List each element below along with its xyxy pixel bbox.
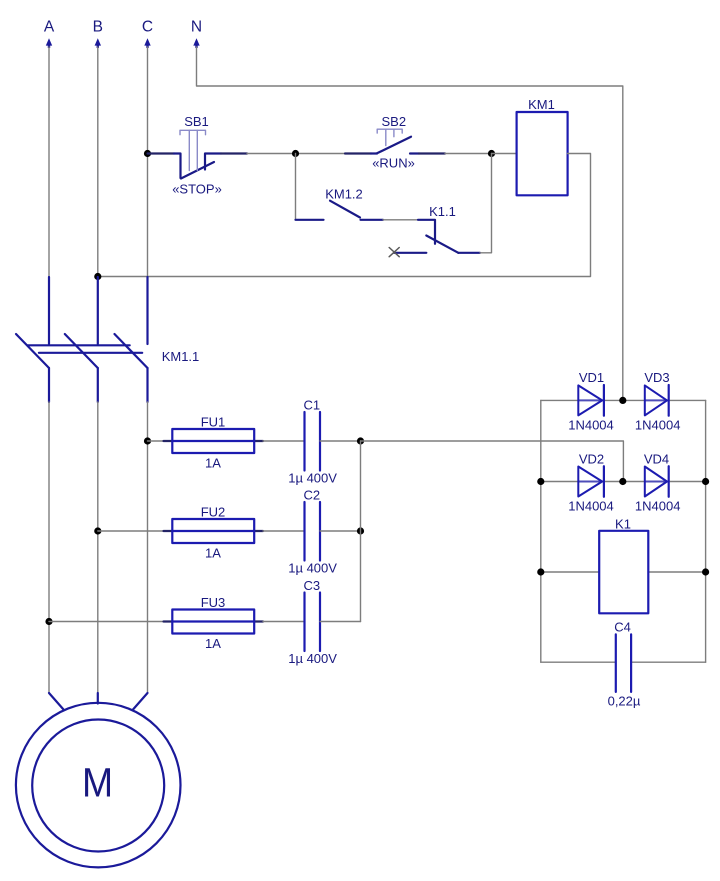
svg-text:VD2: VD2 (579, 451, 604, 466)
wire FU3 to C3 (263, 621, 305, 623)
diode VD4 (645, 467, 667, 497)
fuse FU2 (172, 530, 254, 532)
node junction branch (292, 150, 299, 157)
capacitor C2 (305, 502, 321, 561)
terminal arrow A (46, 38, 52, 48)
wire SB1 left pin overlap (148, 152, 175, 154)
svg-text:«STOP»: «STOP» (172, 181, 222, 196)
svg-text:1N4004: 1N4004 (568, 499, 614, 514)
node junction row2 right (702, 478, 709, 485)
svg-text:C3: C3 (303, 578, 320, 593)
svg-text:K1.1: K1.1 (429, 204, 456, 219)
fuse FU2 pins (164, 530, 173, 532)
fuse FU3 (172, 620, 254, 622)
fuse FU1 pins (164, 440, 173, 442)
pushbutton SB1 plunger (180, 130, 206, 134)
wire SB2 left pin overlap (345, 152, 371, 154)
svg-text:1A: 1A (205, 545, 221, 560)
capacitor C4 (616, 634, 631, 692)
motor M1 stub B (97, 693, 99, 704)
contactor contacts KM1.1 pins (48, 277, 50, 402)
wire C to FU1 (148, 440, 164, 442)
wire rectifier right rail (705, 400, 707, 662)
wire FU1 to C1 (263, 440, 305, 442)
wire phase B lower (97, 402, 99, 693)
svg-text:1µ 400V: 1µ 400V (288, 651, 337, 666)
svg-text:1A: 1A (205, 455, 221, 470)
wire branch down to KM1.2 (295, 154, 297, 220)
wire phase B vertical (97, 47, 99, 277)
svg-text:FU2: FU2 (201, 505, 226, 520)
svg-text:1N4004: 1N4004 (568, 417, 614, 432)
svg-text:1µ 400V: 1µ 400V (288, 471, 337, 486)
wire SB1 right pin overlap (221, 152, 247, 154)
wire phase C vertical (147, 47, 149, 277)
wire K1.1 up to KM1 node (480, 154, 492, 253)
svg-text:0,22µ: 0,22µ (608, 693, 641, 708)
wire phase A lower (48, 402, 50, 693)
wire cap bus vertical (360, 441, 362, 622)
svg-text:«RUN»: «RUN» (372, 156, 415, 171)
diode VD4 inner pin (645, 481, 667, 483)
svg-text:KM1: KM1 (528, 97, 555, 112)
svg-text:SB2: SB2 (382, 114, 407, 129)
svg-text:C: C (142, 18, 153, 35)
svg-text:1N4004: 1N4004 (635, 499, 681, 514)
wire phase C lower (147, 402, 149, 693)
node junction FU3 tap on A (45, 618, 52, 625)
contact K1.1 no-connect X (389, 248, 399, 257)
wire cap bus to rectifier (361, 441, 624, 482)
wire diode row2 (541, 481, 706, 483)
node junction row2 left (537, 478, 544, 485)
diode VD1 inner pin (578, 399, 602, 401)
svg-text:KM1.2: KM1.2 (325, 187, 363, 202)
motor M1 inner circle (32, 720, 164, 852)
wire C1 to bus (320, 440, 361, 442)
svg-text:N: N (191, 18, 202, 35)
diode VD1 (578, 385, 602, 415)
wire SB2 to KM1 node (445, 153, 492, 155)
wire KM1 to return rail (98, 154, 591, 277)
relay coil K1 (599, 531, 648, 614)
node junction C control tap (144, 150, 151, 157)
wire to KM1 coil (492, 153, 517, 155)
node junction B return (94, 273, 101, 280)
diode VD3 (645, 385, 667, 415)
wire phase A vertical (48, 47, 50, 277)
wire B to FU2 (98, 530, 164, 532)
node junction cap bus top (357, 437, 364, 444)
svg-text:VD3: VD3 (644, 370, 669, 385)
fuse FU3 pins (164, 620, 173, 622)
wire C2 to bus (320, 530, 361, 532)
motor M1 stub C (133, 693, 148, 710)
motor M1 stub A (49, 693, 64, 710)
svg-text:A: A (44, 18, 55, 35)
contact K1.1 unused throw stub (394, 252, 426, 254)
svg-text:1N4004: 1N4004 (635, 417, 681, 432)
wire A to FU3 (49, 621, 164, 623)
node junction K1 right (702, 568, 709, 575)
terminal arrow N (193, 38, 199, 48)
svg-text:M: M (82, 761, 113, 806)
svg-text:K1: K1 (615, 517, 631, 532)
wire SB1 to branch node (247, 153, 345, 155)
node junction FU1 tap on C (144, 437, 151, 444)
diode VD2 (578, 467, 602, 497)
contactor KM1.1 linkage (28, 345, 142, 353)
svg-text:1A: 1A (205, 636, 221, 651)
pushbutton SB1 (NC) contact (174, 154, 181, 179)
contactor contacts KM1.1 moving arms (16, 334, 49, 368)
capacitor C3 (305, 593, 321, 652)
svg-text:B: B (93, 18, 103, 35)
contact K1.1 (changeover) (418, 220, 435, 244)
terminal arrow C (144, 38, 150, 48)
node junction FU2 tap on B (94, 527, 101, 534)
node junction cap bus mid (357, 527, 364, 534)
svg-text:KM1.1: KM1.1 (162, 349, 200, 364)
contact KM1.2 (NO) (296, 219, 324, 221)
wire C3 to bus (320, 621, 361, 623)
svg-text:FU3: FU3 (201, 595, 226, 610)
wire KM1.2 to K1.1 (383, 219, 418, 221)
terminal arrow B (95, 38, 101, 48)
node junction row2 mid (619, 478, 626, 485)
wire diode row1 (541, 399, 706, 401)
svg-text:SB1: SB1 (184, 114, 209, 129)
pushbutton SB2 (NO) contact (371, 152, 377, 154)
node junction K1 left (537, 568, 544, 575)
svg-text:C1: C1 (303, 398, 320, 413)
wire SB2 right pin overlap (419, 152, 445, 154)
diode VD2 inner pin (578, 481, 602, 483)
node junction N to bridge (619, 397, 626, 404)
svg-text:C4: C4 (614, 619, 631, 634)
fuse FU1 (172, 440, 254, 442)
diode VD3 inner pin (645, 399, 667, 401)
wire neutral N to rectifier (197, 47, 623, 400)
svg-text:1µ 400V: 1µ 400V (288, 561, 337, 576)
pushbutton SB2 plunger (377, 129, 402, 133)
svg-text:FU1: FU1 (201, 415, 226, 430)
capacitor C1 (305, 412, 321, 471)
node junction KM1 left (488, 150, 495, 157)
svg-text:C2: C2 (303, 488, 320, 503)
motor M1 outer circle (16, 703, 181, 868)
contactor coil KM1 (517, 112, 568, 195)
svg-text:VD4: VD4 (644, 451, 669, 466)
wire rectifier left rail (540, 400, 542, 662)
svg-text:VD1: VD1 (579, 370, 604, 385)
wire FU2 to C2 (263, 530, 305, 532)
wire K1 row (541, 571, 706, 573)
wire bottom rail with C4 (541, 661, 706, 663)
